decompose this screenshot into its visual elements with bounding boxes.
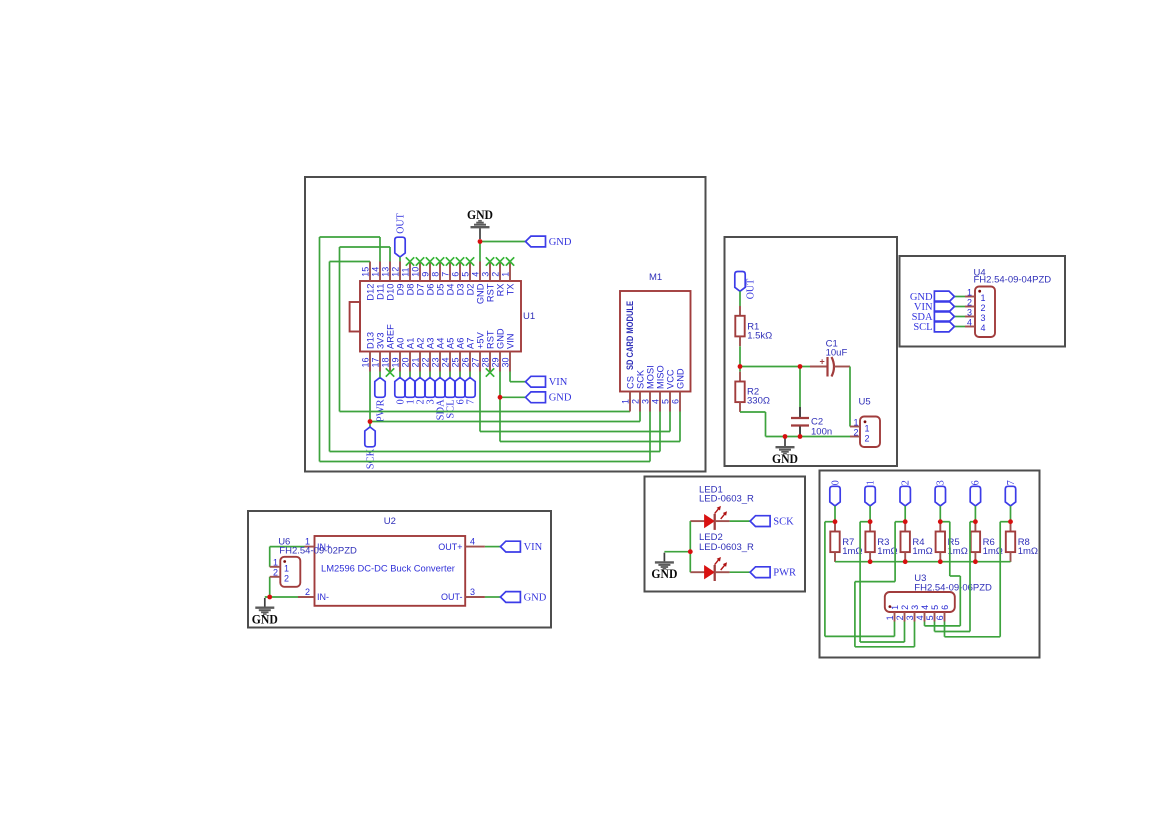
svg-text:26: 26 <box>461 357 471 367</box>
svg-text:D4: D4 <box>446 284 456 296</box>
svg-text:LED-0603_R: LED-0603_R <box>699 542 754 553</box>
svg-text:D6: D6 <box>426 284 436 296</box>
svg-text:GND: GND <box>549 393 572 404</box>
svg-text:RST: RST <box>486 330 496 349</box>
svg-text:7: 7 <box>466 399 477 404</box>
svg-text:2: 2 <box>901 480 912 485</box>
svg-text:VIN: VIN <box>549 377 568 388</box>
svg-text:GND: GND <box>476 283 486 304</box>
svg-text:+: + <box>820 357 825 367</box>
svg-text:FH2.54-09-02PZD: FH2.54-09-02PZD <box>279 546 357 557</box>
svg-text:GND: GND <box>772 452 798 466</box>
svg-text:4: 4 <box>915 615 925 620</box>
svg-text:D7: D7 <box>416 284 426 296</box>
svg-text:D13: D13 <box>366 332 376 349</box>
svg-text:A1: A1 <box>406 338 416 349</box>
svg-text:13: 13 <box>381 267 391 277</box>
svg-text:CS: CS <box>626 376 636 389</box>
svg-text:1.5kΩ: 1.5kΩ <box>747 330 772 341</box>
svg-text:2: 2 <box>853 427 858 437</box>
svg-text:4: 4 <box>920 605 930 610</box>
svg-text:A6: A6 <box>456 338 466 349</box>
svg-text:1: 1 <box>273 558 278 568</box>
svg-text:15: 15 <box>361 267 371 277</box>
svg-text:3: 3 <box>981 313 986 323</box>
svg-text:1mΩ: 1mΩ <box>1018 546 1038 557</box>
svg-text:2: 2 <box>305 587 310 597</box>
svg-text:A2: A2 <box>416 338 426 349</box>
svg-text:10uF: 10uF <box>826 348 848 359</box>
svg-text:SCL: SCL <box>913 322 932 333</box>
svg-text:D12: D12 <box>366 284 376 301</box>
svg-text:6: 6 <box>671 399 681 404</box>
svg-text:2: 2 <box>273 568 278 578</box>
svg-text:4: 4 <box>471 272 481 277</box>
svg-text:U1: U1 <box>523 311 535 322</box>
svg-text:U5: U5 <box>859 397 871 408</box>
svg-text:2: 2 <box>895 615 905 620</box>
svg-text:1: 1 <box>981 293 986 303</box>
svg-text:MISO: MISO <box>656 365 666 389</box>
svg-text:4: 4 <box>981 323 986 333</box>
svg-text:LED-0603_R: LED-0603_R <box>699 493 754 504</box>
svg-text:+5V: +5V <box>476 331 486 349</box>
svg-text:1: 1 <box>865 424 870 434</box>
svg-text:6: 6 <box>935 615 945 620</box>
svg-text:D8: D8 <box>406 284 416 296</box>
svg-text:GND: GND <box>676 368 686 389</box>
svg-text:17: 17 <box>371 357 381 367</box>
svg-text:OUT: OUT <box>395 213 406 234</box>
svg-text:20: 20 <box>401 357 411 367</box>
svg-text:D2: D2 <box>466 284 476 296</box>
svg-text:1: 1 <box>501 272 511 277</box>
svg-text:1: 1 <box>284 564 289 574</box>
svg-text:GND: GND <box>651 567 677 581</box>
svg-text:3: 3 <box>641 399 651 404</box>
svg-text:16: 16 <box>361 357 371 367</box>
svg-text:24: 24 <box>441 357 451 367</box>
svg-text:11: 11 <box>401 267 411 276</box>
svg-text:6: 6 <box>451 272 461 277</box>
svg-text:3: 3 <box>910 605 920 610</box>
svg-text:D5: D5 <box>436 284 446 296</box>
svg-text:1: 1 <box>853 417 858 427</box>
svg-text:D9: D9 <box>396 284 406 296</box>
svg-text:7: 7 <box>441 272 451 277</box>
svg-text:12: 12 <box>391 267 401 277</box>
svg-text:6: 6 <box>971 480 982 485</box>
svg-text:18: 18 <box>381 357 391 367</box>
svg-text:10: 10 <box>411 267 421 277</box>
svg-text:GND: GND <box>252 612 278 626</box>
svg-text:14: 14 <box>371 267 381 277</box>
svg-text:19: 19 <box>391 357 401 367</box>
svg-text:3V3: 3V3 <box>376 332 386 349</box>
svg-text:22: 22 <box>421 357 431 367</box>
svg-text:OUT+: OUT+ <box>438 542 462 552</box>
svg-text:RX: RX <box>496 284 506 297</box>
svg-text:8: 8 <box>431 272 441 277</box>
svg-text:A0: A0 <box>396 338 406 349</box>
svg-text:5: 5 <box>461 272 471 277</box>
svg-text:2: 2 <box>865 433 870 443</box>
svg-text:D11: D11 <box>376 284 386 300</box>
svg-text:330Ω: 330Ω <box>747 395 770 406</box>
svg-text:29: 29 <box>491 357 501 367</box>
svg-text:1: 1 <box>890 605 900 610</box>
svg-text:25: 25 <box>451 357 461 367</box>
svg-text:M1: M1 <box>649 272 662 283</box>
svg-text:2: 2 <box>900 605 910 610</box>
svg-text:3: 3 <box>905 615 915 620</box>
svg-text:21: 21 <box>411 357 421 367</box>
svg-text:GND: GND <box>496 328 506 349</box>
svg-text:9: 9 <box>421 272 431 277</box>
svg-text:1: 1 <box>967 288 972 298</box>
svg-text:OUT-: OUT- <box>441 592 463 602</box>
svg-text:0: 0 <box>830 480 841 485</box>
svg-text:2: 2 <box>491 272 501 277</box>
svg-text:PWR: PWR <box>773 568 796 579</box>
svg-text:GND: GND <box>524 592 547 603</box>
svg-text:MOSI: MOSI <box>646 365 656 389</box>
svg-text:VIN: VIN <box>524 542 543 553</box>
svg-text:SCK: SCK <box>636 369 646 389</box>
svg-text:2: 2 <box>967 298 972 308</box>
svg-text:2: 2 <box>284 573 289 583</box>
svg-text:D3: D3 <box>456 284 466 296</box>
svg-text:A4: A4 <box>436 338 446 349</box>
svg-text:3: 3 <box>967 308 972 318</box>
svg-text:GND: GND <box>467 208 493 222</box>
svg-text:5: 5 <box>930 605 940 610</box>
svg-text:SD CARD MODULE: SD CARD MODULE <box>625 301 635 370</box>
svg-text:1: 1 <box>885 615 895 620</box>
svg-text:3: 3 <box>936 480 947 485</box>
svg-text:A3: A3 <box>426 338 436 349</box>
svg-text:27: 27 <box>471 357 481 367</box>
svg-text:AREF: AREF <box>386 324 396 349</box>
svg-text:OUT: OUT <box>746 279 757 300</box>
svg-text:A7: A7 <box>466 338 476 349</box>
svg-text:4: 4 <box>651 399 661 404</box>
svg-text:23: 23 <box>431 357 441 367</box>
svg-text:3: 3 <box>470 587 475 597</box>
svg-text:4: 4 <box>470 537 475 547</box>
svg-text:30: 30 <box>501 357 511 367</box>
svg-text:1: 1 <box>865 480 876 485</box>
svg-text:SCK: SCK <box>773 517 794 528</box>
svg-text:FH2.54-09-04PZD: FH2.54-09-04PZD <box>974 275 1052 286</box>
svg-text:7: 7 <box>1006 480 1017 485</box>
svg-text:FH2.54-09-06PZD: FH2.54-09-06PZD <box>914 582 992 593</box>
svg-text:2: 2 <box>631 399 641 404</box>
svg-text:1: 1 <box>621 399 631 404</box>
svg-text:6: 6 <box>940 605 950 610</box>
svg-text:A5: A5 <box>446 338 456 349</box>
svg-text:2: 2 <box>981 303 986 313</box>
svg-text:LM2596 DC-DC Buck Converter: LM2596 DC-DC Buck Converter <box>321 562 455 573</box>
svg-text:100n: 100n <box>811 426 832 437</box>
svg-text:28: 28 <box>481 357 491 367</box>
svg-text:1mΩ: 1mΩ <box>912 546 932 557</box>
svg-text:VCC: VCC <box>666 369 676 389</box>
svg-text:5: 5 <box>925 615 935 620</box>
svg-text:IN-: IN- <box>317 592 329 602</box>
svg-text:VIN: VIN <box>506 334 516 350</box>
svg-text:4: 4 <box>967 318 972 328</box>
svg-text:5: 5 <box>661 399 671 404</box>
svg-text:3: 3 <box>481 272 491 277</box>
svg-text:TX: TX <box>506 284 516 296</box>
svg-text:D10: D10 <box>386 284 396 301</box>
svg-text:RST: RST <box>486 283 496 302</box>
svg-text:U2: U2 <box>384 516 396 527</box>
svg-text:GND: GND <box>549 237 572 248</box>
